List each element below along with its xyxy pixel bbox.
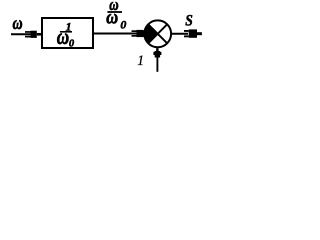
svg-text:ω: ω <box>13 12 23 33</box>
svg-text:ω: ω <box>106 6 118 28</box>
svg-text:0: 0 <box>69 38 75 49</box>
svg-text:1: 1 <box>137 53 144 70</box>
svg-text:0: 0 <box>120 18 126 32</box>
svg-text:ω: ω <box>57 25 69 49</box>
svg-text:S: S <box>185 12 193 29</box>
